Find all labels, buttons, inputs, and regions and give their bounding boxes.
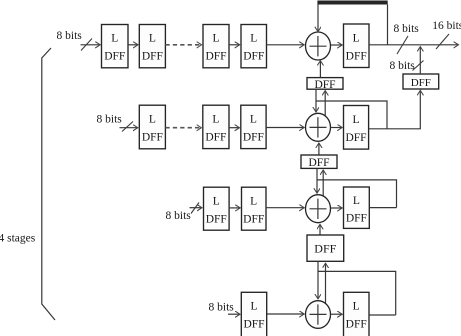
wire row2 U8-adder <box>266 127 304 129</box>
dff U1 (L DFF row1 stage1) <box>102 25 129 68</box>
wire adder A2 - U9 <box>331 127 343 129</box>
dff U6 (L DFF row2 stage1) <box>139 105 165 149</box>
svg-text:DFF: DFF <box>346 51 367 63</box>
svg-text:L: L <box>212 113 219 125</box>
feedback loop row1 right vertical <box>387 5 389 45</box>
dff U10 (L DFF row3 stage1) <box>204 187 230 230</box>
dff U13 (L DFF row4 stage1) <box>241 292 266 336</box>
svg-text:DFF: DFF <box>142 132 163 144</box>
wire adder A4 - U14 <box>331 313 343 315</box>
label: 8 bits (P4 riser) <box>390 60 416 72</box>
feedback loop row3 <box>317 180 397 208</box>
svg-text:L: L <box>111 33 118 45</box>
wire row1 output bus to 16 bits <box>369 44 459 46</box>
svg-text:L: L <box>250 113 257 125</box>
wire row2 input bus <box>120 127 138 129</box>
svg-text:DFF: DFF <box>345 132 366 144</box>
feedback loop row1 thick bar <box>317 1 387 5</box>
svg-text:L: L <box>149 33 156 45</box>
label: 8 bits (row 3 input) <box>166 210 192 222</box>
bus slash row2 input <box>122 122 133 132</box>
bus slash row1 input <box>81 39 92 51</box>
wire P3 through to adder A4 top <box>317 261 319 299</box>
feedback loop row2 <box>316 101 387 129</box>
wire row2 U6-U7 dashed continuation <box>165 127 201 129</box>
label: 8 bits (row1 output) <box>394 23 420 35</box>
wire P1 output to adder A1 bottom <box>319 61 321 78</box>
svg-text:8 bits: 8 bits <box>97 113 123 125</box>
label: 8 bits (row 1 input) <box>57 30 83 42</box>
svg-text:DFF: DFF <box>243 319 264 331</box>
svg-text:DFF: DFF <box>411 77 431 89</box>
dff U14 (L DFF row4 output register) <box>344 292 370 336</box>
bus slash row3 input <box>191 203 199 214</box>
dff U3 (L DFF row1 stage3) <box>203 25 229 68</box>
svg-text:DFF: DFF <box>308 157 329 169</box>
dff P1 (pipeline DFF rows 1-2) <box>307 78 343 91</box>
wire P3 output to adder A3 bottom <box>319 224 321 235</box>
wire tap adder A3 to P2 input <box>322 170 324 197</box>
svg-text:DFF: DFF <box>142 51 163 63</box>
wire row2 output to P4 <box>369 90 421 128</box>
dff U12 (L DFF row3 output register) <box>344 187 370 228</box>
bracket: 4 stages brace <box>42 48 55 320</box>
svg-text:L: L <box>353 195 360 207</box>
svg-text:L: L <box>250 195 257 207</box>
wire row3 output stub <box>369 207 396 209</box>
dff U2 (L DFF row1 stage2) <box>139 25 165 68</box>
svg-text:8 bits: 8 bits <box>209 301 235 313</box>
adder A3 <box>306 195 331 223</box>
wire row2 U7-U8 <box>229 127 240 129</box>
wire row3 input bus <box>190 207 203 209</box>
dff U4 (L DFF row1 stage4) <box>241 25 267 68</box>
adder A1 <box>306 32 331 60</box>
svg-text:L: L <box>250 33 257 45</box>
wire P1 through to adder A2 top <box>315 89 317 112</box>
wire row4 output stub <box>369 314 396 316</box>
wire P4 up to output bus junction <box>419 47 421 74</box>
label: 16 bits <box>432 20 461 32</box>
svg-text:16 bits: 16 bits <box>432 20 461 32</box>
svg-text:L: L <box>352 114 359 126</box>
wire row1 U1-U2 <box>128 44 138 46</box>
wire P2 output to adder A2 bottom <box>318 143 320 155</box>
svg-text:DFF: DFF <box>314 79 335 91</box>
bus slash 8 bits row1 output <box>397 36 408 54</box>
svg-text:L: L <box>353 301 360 313</box>
wire adder A3 - U12 <box>331 207 343 209</box>
wire row1 U3-U4 <box>229 44 240 46</box>
svg-text:DFF: DFF <box>346 213 367 225</box>
label: 8 bits (row 2 input) <box>97 113 123 125</box>
wire P2 through to adder A3 top <box>316 168 318 193</box>
svg-text:8 bits: 8 bits <box>166 210 192 222</box>
dff P3 (pipeline DFF rows 3-4) <box>307 235 344 261</box>
wire row3 U10-U11 <box>229 207 240 209</box>
svg-text:4 stages: 4 stages <box>0 233 36 245</box>
svg-text:DFF: DFF <box>104 51 125 63</box>
feedback loop row1 into adder A1 top <box>317 5 319 32</box>
svg-text:8 bits: 8 bits <box>57 30 83 42</box>
adder A2 <box>306 113 331 141</box>
wire row4 input bus <box>228 313 240 315</box>
svg-text:8 bits: 8 bits <box>390 60 416 72</box>
wire row1 U4-adder <box>267 44 305 46</box>
dff U7 (L DFF row2 stage2) <box>203 105 229 148</box>
svg-text:DFF: DFF <box>314 242 336 256</box>
svg-text:DFF: DFF <box>243 51 264 63</box>
svg-text:DFF: DFF <box>243 132 264 144</box>
wire adder A1 - U5 <box>331 44 343 46</box>
wire tap adder A4 to P3 input <box>325 263 327 303</box>
svg-text:DFF: DFF <box>243 214 264 226</box>
svg-text:8 bits: 8 bits <box>394 23 420 35</box>
svg-text:L: L <box>213 195 220 207</box>
dff P4 (output DFF right column) <box>403 74 439 89</box>
svg-text:L: L <box>250 301 257 313</box>
wire tap adder A2 to P1 input <box>324 91 326 116</box>
wire row4 U13-adder <box>267 313 305 315</box>
dff P2 (pipeline DFF rows 2-3) <box>301 155 337 169</box>
svg-text:L: L <box>149 113 156 125</box>
svg-text:L: L <box>212 33 219 45</box>
svg-text:L: L <box>353 33 360 45</box>
wire row3 U11-adder <box>266 207 304 209</box>
svg-text:DFF: DFF <box>206 214 227 226</box>
wire row1 U2-U3 dashed continuation <box>165 44 201 46</box>
adder A4 <box>306 301 331 329</box>
dff U5 (L DFF row1 output register) <box>344 24 370 68</box>
dff U8 (L DFF row2 stage3) <box>241 105 266 148</box>
label: 8 bits (row 4 input) <box>209 301 235 313</box>
svg-text:DFF: DFF <box>346 319 367 331</box>
svg-text:DFF: DFF <box>205 132 226 144</box>
svg-text:DFF: DFF <box>205 51 226 63</box>
bus slash on P4 riser <box>413 61 424 71</box>
dff U9 (L DFF row2 output register) <box>344 106 369 150</box>
dff U11 (L DFF row3 stage2) <box>242 187 267 230</box>
wire row1 input bus <box>81 44 101 46</box>
label: 4 stages <box>0 233 36 245</box>
bus slash 16 bits <box>436 34 449 49</box>
feedback loop row4 <box>318 271 396 315</box>
